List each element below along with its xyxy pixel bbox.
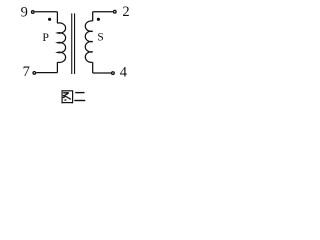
secondary winding S coil (4 loops) <box>85 21 92 63</box>
core line right <box>74 13 76 74</box>
wire secondary top vertical <box>92 12 94 21</box>
svg-text:4: 4 <box>120 65 128 81</box>
terminal circle pin 9 <box>32 11 35 14</box>
wire from secondary bottom to pin 4 <box>93 72 112 74</box>
svg-text:2: 2 <box>122 4 129 20</box>
svg-text:9: 9 <box>21 4 28 20</box>
terminal circle pin 7 <box>33 72 36 75</box>
svg-text:7: 7 <box>23 64 30 80</box>
wire from secondary top corner to pin 2 <box>93 11 113 13</box>
caption character tu inner strokes <box>63 93 71 100</box>
caption character tu (figure) box <box>62 91 73 104</box>
caption character er (two) top bar <box>75 92 84 94</box>
terminal circle pin 4 <box>112 72 115 75</box>
primary winding P coil (4 loops) <box>57 23 65 63</box>
wire primary bottom vertical <box>56 62 58 72</box>
wire secondary bottom vertical <box>92 62 94 73</box>
terminal circle pin 2 <box>114 10 117 13</box>
core line left <box>71 13 73 74</box>
wire from primary bottom to pin 7 <box>36 72 57 74</box>
caption character er (two) bottom bar <box>74 100 85 102</box>
wire primary top vertical <box>56 12 58 23</box>
svg-text:P: P <box>42 30 49 44</box>
polarity dot secondary <box>97 18 100 21</box>
wire from pin 9 to primary top corner <box>35 11 58 13</box>
polarity dot primary <box>48 18 51 21</box>
svg-text:S: S <box>97 31 103 43</box>
